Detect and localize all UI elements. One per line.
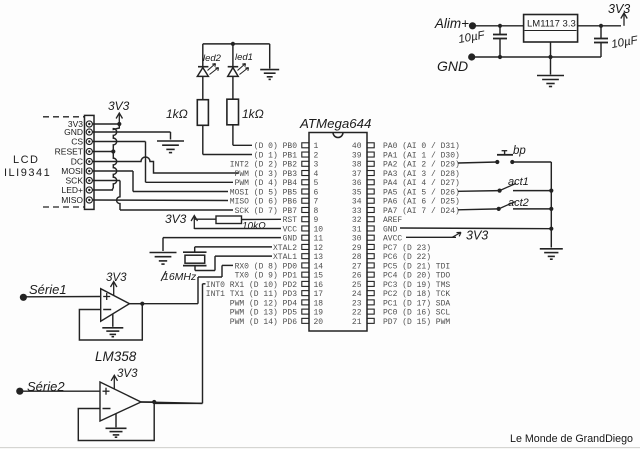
svg-text:PC7 (D 23): PC7 (D 23) [383, 244, 431, 253]
svg-text:AVCC: AVCC [383, 235, 402, 244]
svg-text:PWM (D 12) PD4: PWM (D 12) PD4 [230, 299, 297, 308]
svg-text:ATMega644: ATMega644 [299, 116, 371, 131]
svg-text:GND: GND [64, 127, 83, 137]
svg-text:CS: CS [71, 137, 83, 147]
svg-text:8: 8 [314, 207, 319, 216]
svg-text:PA0 (AI 0 / D31): PA0 (AI 0 / D31) [383, 142, 460, 151]
svg-text:27: 27 [352, 262, 362, 271]
svg-text:38: 38 [352, 161, 362, 170]
svg-text:PWM (D 13) PD5: PWM (D 13) PD5 [230, 309, 297, 318]
svg-text:RESET: RESET [55, 147, 83, 157]
svg-text:37: 37 [352, 170, 362, 179]
svg-text:3V3: 3V3 [466, 229, 488, 243]
svg-text:3V3: 3V3 [106, 272, 127, 284]
svg-text:1kΩ: 1kΩ [242, 107, 264, 121]
svg-text:9: 9 [314, 216, 319, 225]
svg-text:4: 4 [314, 170, 319, 179]
svg-text:1: 1 [314, 142, 319, 151]
svg-text:11: 11 [314, 235, 324, 244]
svg-text:PD7 (D 15) PWM: PD7 (D 15) PWM [383, 318, 450, 327]
svg-text:10kΩ: 10kΩ [242, 221, 266, 232]
svg-text:PWM (D 3) PB3: PWM (D 3) PB3 [235, 170, 298, 179]
svg-text:TX0 (D 9) PD1: TX0 (D 9) PD1 [235, 272, 298, 281]
svg-text:PC4 (D 20) TDO: PC4 (D 20) TDO [383, 272, 450, 281]
svg-text:39: 39 [352, 151, 362, 160]
svg-text:34: 34 [352, 198, 362, 207]
svg-text:21: 21 [352, 318, 362, 327]
svg-text:10µF: 10µF [610, 34, 639, 51]
svg-text:18: 18 [314, 299, 324, 308]
svg-text:1kΩ: 1kΩ [166, 107, 188, 121]
svg-text:LCD: LCD [13, 154, 40, 166]
svg-text:15: 15 [314, 272, 324, 281]
svg-text:Série1: Série1 [29, 282, 67, 297]
svg-text:INT2 (D 2) PB2: INT2 (D 2) PB2 [230, 161, 297, 170]
svg-text:14: 14 [314, 262, 324, 271]
svg-text:MISO: MISO [61, 195, 83, 205]
svg-text:16: 16 [314, 281, 324, 290]
svg-text:GND: GND [283, 235, 298, 244]
svg-text:7: 7 [314, 198, 319, 207]
svg-text:35: 35 [352, 188, 362, 197]
svg-text:XTAL1: XTAL1 [273, 253, 297, 262]
svg-text:MOSI: MOSI [61, 166, 83, 176]
svg-text:30: 30 [352, 235, 362, 244]
svg-text:MOSI (D 5) PB5: MOSI (D 5) PB5 [230, 188, 297, 197]
svg-text:ILI9341: ILI9341 [4, 167, 51, 179]
svg-text:13: 13 [314, 253, 324, 262]
svg-text:10: 10 [314, 225, 324, 234]
svg-text:20: 20 [314, 318, 324, 327]
svg-text:led1: led1 [235, 52, 253, 63]
svg-text:19: 19 [314, 309, 324, 318]
svg-text:PA3 (AI 3 / D28): PA3 (AI 3 / D28) [383, 170, 460, 179]
svg-text:5: 5 [314, 179, 319, 188]
svg-text:23: 23 [352, 299, 362, 308]
svg-text:PA4 (AI 4 / D27): PA4 (AI 4 / D27) [383, 179, 460, 188]
svg-text:LM1117 3.3: LM1117 3.3 [527, 19, 576, 30]
svg-text:3V3: 3V3 [608, 2, 630, 16]
svg-text:40: 40 [352, 142, 362, 151]
svg-text:XTAL2: XTAL2 [273, 244, 297, 253]
svg-text:22: 22 [352, 309, 362, 318]
svg-text:PC6 (D 22): PC6 (D 22) [383, 253, 431, 262]
svg-text:INT0 RX1 (D 10) PD2: INT0 RX1 (D 10) PD2 [206, 281, 297, 290]
svg-text:PC0 (D 16) SCL: PC0 (D 16) SCL [383, 309, 450, 318]
svg-text:(D 1) PB1: (D 1) PB1 [254, 151, 297, 160]
svg-text:28: 28 [352, 253, 362, 262]
svg-text:PWM (D 14) PD6: PWM (D 14) PD6 [230, 318, 297, 327]
svg-text:Alim+: Alim+ [434, 16, 469, 31]
svg-text:led2: led2 [203, 53, 222, 64]
svg-text:SCK: SCK [66, 176, 84, 186]
svg-text:29: 29 [352, 244, 362, 253]
svg-text:3V3: 3V3 [108, 99, 130, 113]
svg-text:(D 0) PB0: (D 0) PB0 [254, 142, 297, 151]
svg-text:PWM (D 4) PB4: PWM (D 4) PB4 [235, 179, 298, 188]
svg-text:Le Monde de GrandDiego: Le Monde de GrandDiego [510, 433, 633, 445]
svg-text:PA5 (AI 5 / D26): PA5 (AI 5 / D26) [383, 188, 460, 197]
svg-text:act1: act1 [508, 176, 529, 188]
svg-text:6: 6 [314, 188, 319, 197]
svg-text:MISO (D 6) PB6: MISO (D 6) PB6 [230, 198, 297, 207]
svg-text:PC3 (D 19) TMS: PC3 (D 19) TMS [383, 281, 450, 290]
svg-text:VCC: VCC [283, 225, 298, 234]
svg-text:PA6 (AI 6 / D25): PA6 (AI 6 / D25) [383, 198, 460, 207]
svg-text:17: 17 [314, 290, 324, 299]
svg-text:2: 2 [314, 151, 319, 160]
svg-text:INT1 TX1 (D 11) PD3: INT1 TX1 (D 11) PD3 [206, 290, 297, 299]
svg-text:33: 33 [352, 207, 362, 216]
svg-text:PA7 (AI 7 / D24): PA7 (AI 7 / D24) [383, 207, 460, 216]
svg-text:RX0 (D 8) PD0: RX0 (D 8) PD0 [235, 262, 298, 271]
svg-text:GND: GND [383, 225, 398, 234]
svg-text:bp: bp [513, 145, 526, 157]
svg-text:3V3: 3V3 [117, 368, 138, 380]
svg-text:DC: DC [71, 157, 83, 167]
svg-text:SCK (D 7) PB7: SCK (D 7) PB7 [235, 207, 298, 216]
svg-text:16MHz: 16MHz [163, 271, 197, 283]
svg-text:3V3: 3V3 [165, 212, 187, 226]
svg-text:12: 12 [314, 244, 324, 253]
svg-text:32: 32 [352, 216, 362, 225]
svg-text:LM358: LM358 [95, 349, 137, 364]
svg-text:PC5 (D 21) TDI: PC5 (D 21) TDI [383, 262, 450, 271]
svg-text:25: 25 [352, 281, 362, 290]
svg-text:26: 26 [352, 272, 362, 281]
svg-text:RST: RST [283, 216, 298, 225]
svg-text:PA2 (AI 2 / D29): PA2 (AI 2 / D29) [383, 161, 460, 170]
svg-text:PC1 (D 17) SDA: PC1 (D 17) SDA [383, 299, 450, 308]
svg-text:PC2 (D 18) TCK: PC2 (D 18) TCK [383, 290, 450, 299]
svg-text:LED+: LED+ [62, 185, 84, 195]
svg-text:GND: GND [437, 58, 468, 74]
svg-text:31: 31 [352, 225, 362, 234]
svg-text:10µF: 10µF [457, 29, 486, 46]
svg-text:24: 24 [352, 290, 362, 299]
svg-text:AREF: AREF [383, 216, 402, 225]
svg-text:act2: act2 [508, 197, 529, 209]
svg-text:PA1 (AI 1 / D30): PA1 (AI 1 / D30) [383, 151, 460, 160]
svg-text:36: 36 [352, 179, 362, 188]
svg-text:3: 3 [314, 161, 319, 170]
